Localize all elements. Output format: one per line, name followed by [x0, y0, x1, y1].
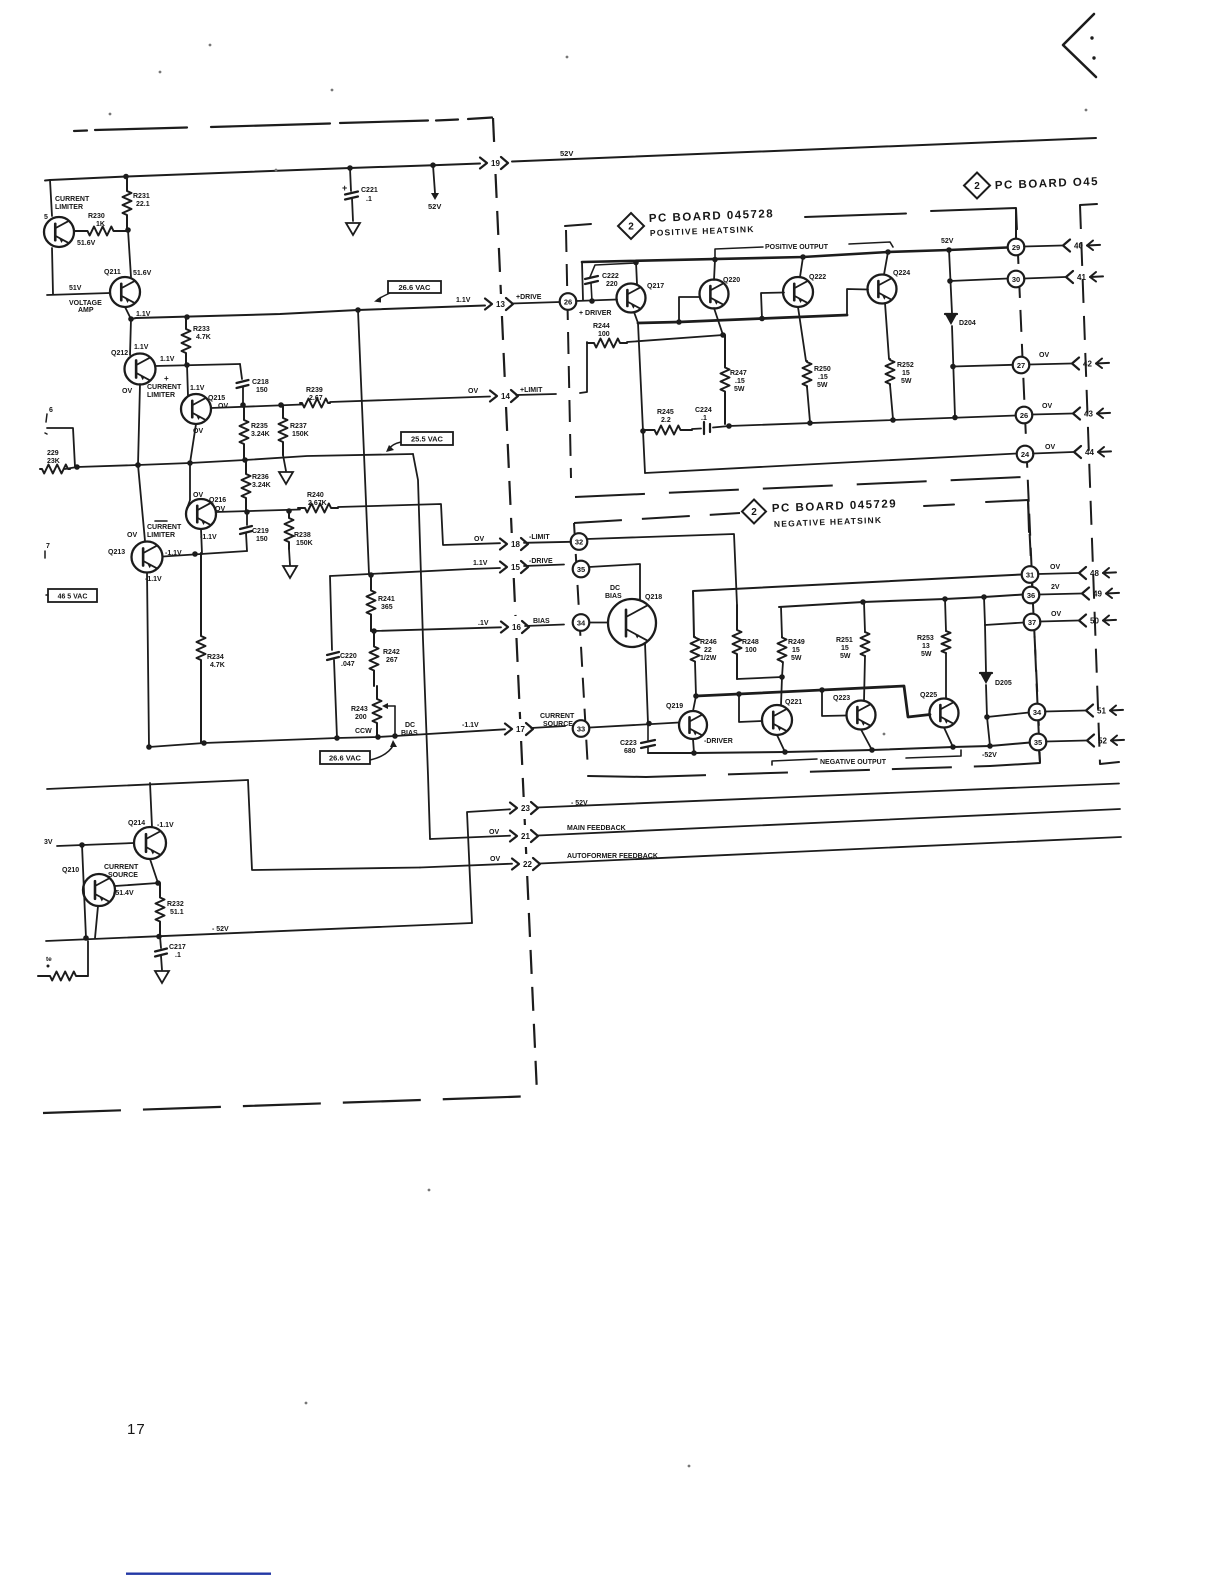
svg-text:51: 51 — [1097, 707, 1106, 716]
svg-text:.15: .15 — [818, 374, 828, 381]
svg-text:R239: R239 — [306, 387, 323, 394]
svg-text:NEGATIVE OUTPUT: NEGATIVE OUTPUT — [820, 759, 887, 766]
svg-text:C219: C219 — [252, 528, 269, 535]
svg-text:1.1V: 1.1V — [456, 297, 471, 304]
chevron 42 — [1029, 364, 1071, 365]
svg-text:-1.1V: -1.1V — [165, 550, 182, 557]
svg-text:R231: R231 — [133, 193, 150, 200]
wire terminal-26 line (emitter sense) — [729, 416, 1016, 427]
svg-text:CURRENT: CURRENT — [55, 196, 90, 203]
transistor Q222 — [783, 277, 813, 307]
svg-text:2: 2 — [628, 222, 634, 233]
svg-text:35: 35 — [577, 565, 585, 574]
svg-text:26.6 VAC: 26.6 VAC — [399, 283, 432, 292]
svg-text:1/2W: 1/2W — [700, 655, 717, 662]
resistor R246 — [691, 637, 700, 662]
wire Q214 emitter down to R232 — [150, 859, 158, 883]
node junction D204 to terminal 26 line — [952, 415, 958, 421]
wire Q213 emitter down to current source row — [147, 573, 149, 748]
svg-text:CURRENT: CURRENT — [147, 384, 182, 391]
dash after label — [805, 214, 906, 218]
R243 wiper arrow — [386, 705, 395, 707]
svg-text:150K: 150K — [296, 540, 313, 547]
svg-text:R235: R235 — [251, 423, 268, 430]
PC board 045728 dashed box top edge — [565, 224, 591, 226]
wire Q219 collector to bus — [693, 696, 696, 711]
svg-text:Q222: Q222 — [809, 274, 826, 281]
transistor Q217 +driver — [617, 284, 646, 313]
node junction BIAS tap — [371, 628, 377, 634]
transistor Q223 — [847, 701, 876, 730]
base tap Q224 — [847, 289, 868, 315]
transistor Q218 DC BIAS — [608, 599, 656, 647]
off-page board bottom corner — [1100, 762, 1119, 764]
PC board 045729 dashed box top edge — [574, 513, 740, 523]
svg-text:-1.1V: -1.1V — [157, 822, 174, 829]
svg-text:OV: OV — [1051, 611, 1061, 618]
terminal circle 29 — [1008, 239, 1025, 256]
resistor R251 — [864, 602, 865, 632]
arrow terminal 22 AUTOFORMER FEEDBACK — [512, 859, 519, 870]
svg-text:Q214: Q214 — [128, 820, 145, 827]
wire rail left end drop — [582, 262, 583, 300]
off-page board dashed left edge — [1080, 204, 1097, 205]
svg-text:4.7K: 4.7K — [210, 662, 225, 669]
svg-text:14: 14 — [501, 392, 510, 401]
negative box top right corner — [986, 500, 1029, 532]
wire R251 bottom to Q223 collector — [864, 656, 865, 701]
svg-text:SOURCE: SOURCE — [108, 872, 138, 879]
svg-text:1.1V: 1.1V — [160, 356, 175, 363]
corner chevron mark top right — [1063, 14, 1096, 77]
svg-text:1.1V: 1.1V — [134, 344, 149, 351]
svg-text:Q215: Q215 — [208, 395, 225, 402]
resistor R245 — [640, 428, 646, 434]
dash after 045729 label — [924, 505, 954, 507]
svg-text:150: 150 — [256, 536, 268, 543]
svg-text:23K: 23K — [47, 458, 60, 465]
wire current source -1.1V row — [149, 729, 505, 747]
svg-text:Q220: Q220 — [723, 277, 740, 284]
transistor Q220 — [700, 280, 729, 309]
big dashed boundary box - bottom edge — [43, 1096, 536, 1113]
svg-text:3.24K: 3.24K — [251, 431, 270, 438]
svg-text:C217: C217 — [169, 944, 186, 951]
long wire MAIN FEEDBACK to right — [538, 809, 1120, 836]
wire to terminal 37 — [985, 623, 1024, 626]
svg-text:VOLTAGE: VOLTAGE — [69, 300, 102, 307]
svg-text:Q223: Q223 — [833, 695, 850, 702]
svg-text:15: 15 — [792, 647, 800, 654]
boxed label 26.6 VAC (bottom) — [320, 751, 370, 764]
svg-text:R249: R249 — [788, 639, 805, 646]
wire 27 row from D204 vertical — [950, 364, 956, 370]
svg-text:49: 49 — [1093, 590, 1102, 599]
long wire AUTOFORMER FEEDBACK to right — [540, 837, 1121, 864]
wire terminal 17 to PC board terminal 33 — [531, 726, 565, 728]
svg-text:Q224: Q224 — [893, 270, 910, 277]
big dashed boundary box of driver circuit - top edge — [74, 129, 87, 132]
svg-text:19: 19 — [491, 159, 500, 168]
svg-text:48: 48 — [1090, 569, 1099, 578]
svg-text:51.1: 51.1 — [170, 909, 184, 916]
svg-text:5W: 5W — [921, 651, 932, 658]
svg-text:17: 17 — [127, 1421, 146, 1438]
transistor Q210 current source — [83, 874, 115, 906]
svg-text:15: 15 — [902, 370, 910, 377]
wire -DRIVE line — [330, 568, 500, 576]
terminal circle 30 — [1008, 271, 1025, 288]
svg-text:CURRENT: CURRENT — [104, 864, 139, 871]
svg-text:te: te — [46, 956, 52, 963]
arrow terminal 23 -52V — [510, 803, 517, 814]
transistor Q225 — [930, 699, 959, 728]
resistor R236 — [242, 460, 251, 512]
resistor R248 — [733, 605, 742, 679]
capacitor C221 — [347, 165, 353, 171]
diamond label 2 positive board — [618, 213, 644, 239]
base bus positive box — [638, 315, 847, 323]
capacitor C223 — [647, 724, 649, 741]
svg-text:R247: R247 — [730, 370, 747, 377]
terminal circle 27 — [1013, 357, 1030, 374]
svg-text:Q210: Q210 — [62, 867, 79, 874]
svg-text:R250: R250 — [814, 366, 831, 373]
svg-text:+LIMIT: +LIMIT — [520, 387, 543, 394]
svg-text:.1: .1 — [175, 952, 181, 959]
svg-text:- 52V: - 52V — [571, 800, 588, 807]
capacitor C224 — [703, 422, 705, 434]
potentiometer R243 — [373, 686, 382, 736]
svg-text:1.1V: 1.1V — [136, 311, 151, 318]
wire R249 bottom to Q221 collector junction — [782, 662, 783, 677]
resistor R232 — [156, 883, 165, 936]
diode D204 — [945, 313, 957, 315]
transistor Q216 - current limiter — [186, 499, 216, 529]
capacitor C220 branch from -DRIVE line — [330, 576, 332, 650]
wire R246 top corner to terminal 31 line — [693, 575, 1022, 638]
resistor R230 — [74, 227, 127, 236]
svg-text:44: 44 — [1085, 448, 1094, 457]
wire Q216 emitter to -1.1V line — [201, 529, 202, 554]
wire Q212 emitter down to R229 line — [138, 384, 140, 465]
svg-text:365: 365 — [381, 604, 393, 611]
label POSITIVE OUTPUT with bracket — [715, 247, 763, 258]
svg-text:OV: OV — [468, 388, 478, 395]
arrow terminal 16 BIAS — [501, 622, 508, 633]
collector rail 52V positive box — [582, 248, 1007, 263]
ground below C221 — [346, 223, 360, 235]
terminal circle 31 — [1022, 566, 1039, 583]
chevron 43 — [1032, 414, 1072, 415]
boxed label 46.5 VAC (left edge) — [48, 589, 97, 602]
svg-text:24: 24 — [1021, 450, 1030, 459]
wire terminal 26 to Q217 base — [576, 300, 617, 302]
wire Q221 emitter to rail — [777, 735, 785, 752]
svg-text:R232: R232 — [167, 901, 184, 908]
resistor R229 (partial at left edge) — [40, 465, 70, 474]
arrow terminal 18 -LIMIT — [500, 539, 507, 550]
resistor R252 — [886, 359, 895, 385]
svg-text:7: 7 — [46, 543, 50, 550]
PC board 045729 dashed left edge through terminals — [574, 523, 588, 770]
svg-text:31: 31 — [1026, 570, 1034, 579]
wire Q221 collector — [781, 677, 782, 705]
svg-text:+: + — [164, 374, 169, 383]
terminal circle 36 — [1023, 587, 1040, 604]
PC board 045728 dashed box left edge — [566, 230, 571, 478]
svg-text:150: 150 — [256, 387, 268, 394]
svg-text:Q211: Q211 — [104, 269, 121, 276]
svg-text:27: 27 — [1017, 361, 1025, 370]
svg-text:R248: R248 — [742, 639, 759, 646]
svg-text:OV: OV — [1039, 352, 1049, 359]
base bus negative box — [696, 686, 930, 717]
svg-text:17: 17 — [516, 725, 525, 734]
wire Q222 emitter through bus to R250 — [798, 307, 806, 361]
svg-text:26: 26 — [564, 297, 572, 306]
svg-text:CURRENT: CURRENT — [147, 524, 182, 531]
resistor R244 — [580, 342, 587, 393]
PC board 045728 dashed bottom edge — [575, 477, 1022, 497]
svg-text:267: 267 — [386, 657, 398, 664]
wire terminal 13 to PC board terminal 26 — [512, 302, 560, 304]
wire Q216 collector row — [216, 510, 300, 513]
wire R231 junction down to Q211 collector — [128, 230, 131, 277]
svg-text:51.6V: 51.6V — [77, 240, 96, 247]
svg-text:DC: DC — [610, 585, 620, 592]
svg-text:CURRENT: CURRENT — [540, 713, 575, 720]
svg-text:.1: .1 — [366, 196, 372, 203]
svg-text:2.67: 2.67 — [309, 395, 323, 402]
wire terminal 14 to PC board terminal 25 — [516, 394, 556, 395]
label NEGATIVE OUTPUT with bracket — [772, 759, 817, 765]
transistor Q213 — [132, 542, 163, 573]
transistor Q212 + current limiter — [125, 354, 156, 385]
svg-text:.047: .047 — [341, 661, 355, 668]
svg-text:R240: R240 — [307, 492, 324, 499]
emitter rail negative box -52V — [648, 743, 1030, 754]
svg-text:OV: OV — [474, 536, 484, 543]
svg-text:C223: C223 — [620, 740, 637, 747]
svg-text:32: 32 — [575, 537, 583, 546]
wire emitter bus via R245 drop — [638, 323, 643, 431]
wire Q215 base from 1.1V line — [183, 365, 188, 402]
resistor R231 — [123, 177, 132, 229]
base tap Q223 — [822, 690, 846, 716]
base tap Q222 — [761, 293, 784, 319]
wire Q224 collector to rail — [884, 252, 888, 275]
svg-text:51.6V: 51.6V — [133, 270, 152, 277]
partial resistor at lower left edge — [38, 972, 88, 981]
blue underline bottom — [126, 1573, 271, 1575]
terminal circle 26 +driver — [560, 293, 577, 310]
resistor R237 — [279, 405, 288, 455]
svg-text:Q212: Q212 — [111, 350, 128, 357]
svg-text:5W: 5W — [734, 386, 745, 393]
svg-text:29: 29 — [1012, 243, 1020, 252]
svg-text:OV: OV — [122, 388, 132, 395]
chevron 40 — [1024, 246, 1062, 247]
svg-text:200: 200 — [355, 714, 367, 721]
svg-text:OV: OV — [1042, 403, 1052, 410]
svg-text:5W: 5W — [817, 382, 828, 389]
diode D205 — [980, 672, 992, 674]
off-page PC board diamond label top right — [964, 173, 990, 199]
wire corner stub above R229 — [47, 428, 75, 467]
diode D205 vertical — [985, 625, 986, 672]
resistor R241 — [367, 574, 376, 631]
chevron 41 — [1024, 277, 1065, 279]
wire R238 to ground — [289, 549, 290, 565]
svg-text:Q225: Q225 — [920, 692, 937, 699]
wire Q213 emitter rail crossing to Q214 — [47, 780, 248, 789]
svg-text:C221: C221 — [361, 187, 378, 194]
svg-text:5W: 5W — [840, 653, 851, 660]
svg-text:50: 50 — [1090, 617, 1099, 626]
node junction R231 top on 52V rail — [123, 174, 129, 180]
svg-text:18: 18 — [511, 540, 520, 549]
svg-text:34: 34 — [1033, 708, 1042, 717]
svg-text:30: 30 — [1012, 275, 1020, 284]
arrow terminal 13 +DRIVE — [485, 299, 492, 310]
wire C219 bottom to Q213 collector -1.1V — [163, 551, 247, 557]
svg-text:R244: R244 — [593, 323, 610, 330]
svg-text:21: 21 — [521, 832, 530, 841]
wire 3V to Q214 base — [57, 843, 134, 846]
node junction Q210 collector — [79, 842, 85, 848]
svg-text:5W: 5W — [791, 655, 802, 662]
wire D205 junction to rail — [987, 717, 990, 746]
svg-text:Q218: Q218 — [645, 594, 662, 601]
resistor R249 — [781, 607, 782, 637]
arrow terminal 17 CURRENT SOURCE — [505, 724, 512, 735]
svg-text:35: 35 — [1034, 738, 1042, 747]
svg-text:150K: 150K — [292, 431, 309, 438]
wire R248 bottom to Q221 collector — [737, 677, 782, 679]
svg-text:.15: .15 — [735, 378, 745, 385]
boxed label 26.6 VAC (top) — [388, 281, 441, 293]
svg-text:-1.1V: -1.1V — [462, 722, 479, 729]
wire R249 top corner + 36 bus — [779, 595, 1023, 608]
svg-text:-52V: -52V — [982, 752, 997, 759]
wire -52V rail up corner to terminal 23 — [467, 809, 510, 923]
wire R239 to terminal 14 — [330, 397, 490, 403]
svg-text:+: + — [342, 183, 347, 193]
svg-text:6: 6 — [49, 407, 53, 414]
transistor Q215 — [181, 394, 211, 424]
wire autoformer feedback to terminal 22 — [420, 864, 512, 868]
transistor Q221 — [762, 705, 792, 735]
svg-text:AUTOFORMER FEEDBACK: AUTOFORMER FEEDBACK — [567, 853, 658, 860]
svg-text:-DRIVE: -DRIVE — [529, 558, 553, 565]
wire 51V to Q211 base — [47, 293, 110, 295]
wire Q218 emitter down to C223 — [645, 643, 648, 724]
terminal circle 32 -limit — [571, 533, 588, 550]
svg-text:.1: .1 — [701, 415, 707, 422]
svg-text:42: 42 — [1083, 360, 1092, 369]
svg-text:15: 15 — [511, 563, 520, 572]
PC board 045729 dashed right edge through terminals — [1028, 500, 1040, 750]
svg-text:-1.1V: -1.1V — [200, 534, 217, 541]
svg-text:LIMITER: LIMITER — [147, 392, 175, 399]
current limiter transistor Q209 (partial, unlabeled) — [44, 217, 74, 247]
stray specks — [209, 44, 212, 47]
wire Q220 collector to rail — [714, 260, 715, 281]
wire Q217 collector to rail — [636, 262, 637, 284]
wire -52V rail (bottom left) — [46, 923, 472, 941]
wire terminal 34 to Q218 base — [590, 622, 608, 624]
capacitor C217 — [160, 937, 161, 949]
wire Q222 collector to rail — [800, 257, 803, 277]
wire -limit from arrow 18 — [524, 542, 571, 543]
svg-text:OV: OV — [193, 492, 203, 499]
svg-text:5: 5 — [44, 214, 48, 221]
wire +DRIVE 1.1V line from Q211 emitter — [131, 306, 485, 320]
svg-text:52V: 52V — [428, 202, 441, 211]
diode D204 vertical — [949, 250, 952, 313]
base tap Q221 — [739, 694, 762, 722]
terminal circle 35 -drive — [573, 561, 590, 578]
svg-text:23: 23 — [521, 804, 530, 813]
svg-text:26: 26 — [1020, 411, 1028, 420]
svg-text:MAIN FEEDBACK: MAIN FEEDBACK — [567, 825, 626, 832]
svg-text:R234: R234 — [207, 654, 224, 661]
wire terminal 33 to Q219 base — [590, 723, 679, 728]
svg-text:4.7K: 4.7K — [196, 334, 211, 341]
arrow terminal 15 -DRIVE — [500, 562, 507, 573]
svg-text:OV: OV — [127, 532, 137, 539]
vertical +drive feed down to R241 chain — [358, 310, 369, 574]
svg-text:Q219: Q219 — [666, 703, 683, 710]
wire Q212 emitter junction down to Q213 base — [138, 465, 145, 541]
svg-text:C224: C224 — [695, 407, 712, 414]
terminal circle 35 right — [1030, 734, 1047, 751]
svg-text:16: 16 — [512, 623, 521, 632]
svg-text:R236: R236 — [252, 474, 269, 481]
svg-text:3.24K: 3.24K — [252, 482, 271, 489]
svg-text:220: 220 — [606, 281, 618, 288]
wire emitter of top transistor down to 51V node — [52, 248, 53, 294]
svg-text:52V: 52V — [941, 238, 954, 245]
wire R240 to -LIMIT corner — [338, 504, 500, 545]
wire terminal 15 to PC board terminal 35 — [524, 565, 564, 567]
resistor R238 — [285, 511, 294, 549]
node junction R230/R231 — [125, 227, 131, 233]
svg-text:BIAS: BIAS — [401, 730, 418, 737]
svg-text:R243: R243 — [351, 706, 368, 713]
svg-text:46 5 VAC: 46 5 VAC — [58, 594, 88, 601]
resistor R250 — [803, 361, 812, 387]
wire junction down to Q210 and rail — [82, 845, 86, 938]
svg-text:BIAS: BIAS — [605, 593, 622, 600]
wire R237 to ground — [283, 455, 286, 471]
svg-text:13: 13 — [922, 643, 930, 650]
svg-text:22: 22 — [704, 647, 712, 654]
svg-text:2V: 2V — [1051, 584, 1060, 591]
capacitor C219 — [246, 512, 248, 525]
node junctions on R229 line — [74, 464, 80, 470]
vertical stub from 52V corner to current limiter transistor — [50, 180, 52, 216]
ground below R237 — [279, 472, 293, 484]
svg-text:Q216: Q216 — [209, 497, 226, 504]
wire Q224 emitter to R252 — [885, 303, 889, 359]
big dashed boundary box - right edge — [493, 118, 495, 152]
terminal circle 37 — [1024, 614, 1041, 631]
resistor R235 — [240, 405, 249, 459]
svg-text:R230: R230 — [88, 213, 105, 220]
transistor Q224 — [868, 275, 897, 304]
